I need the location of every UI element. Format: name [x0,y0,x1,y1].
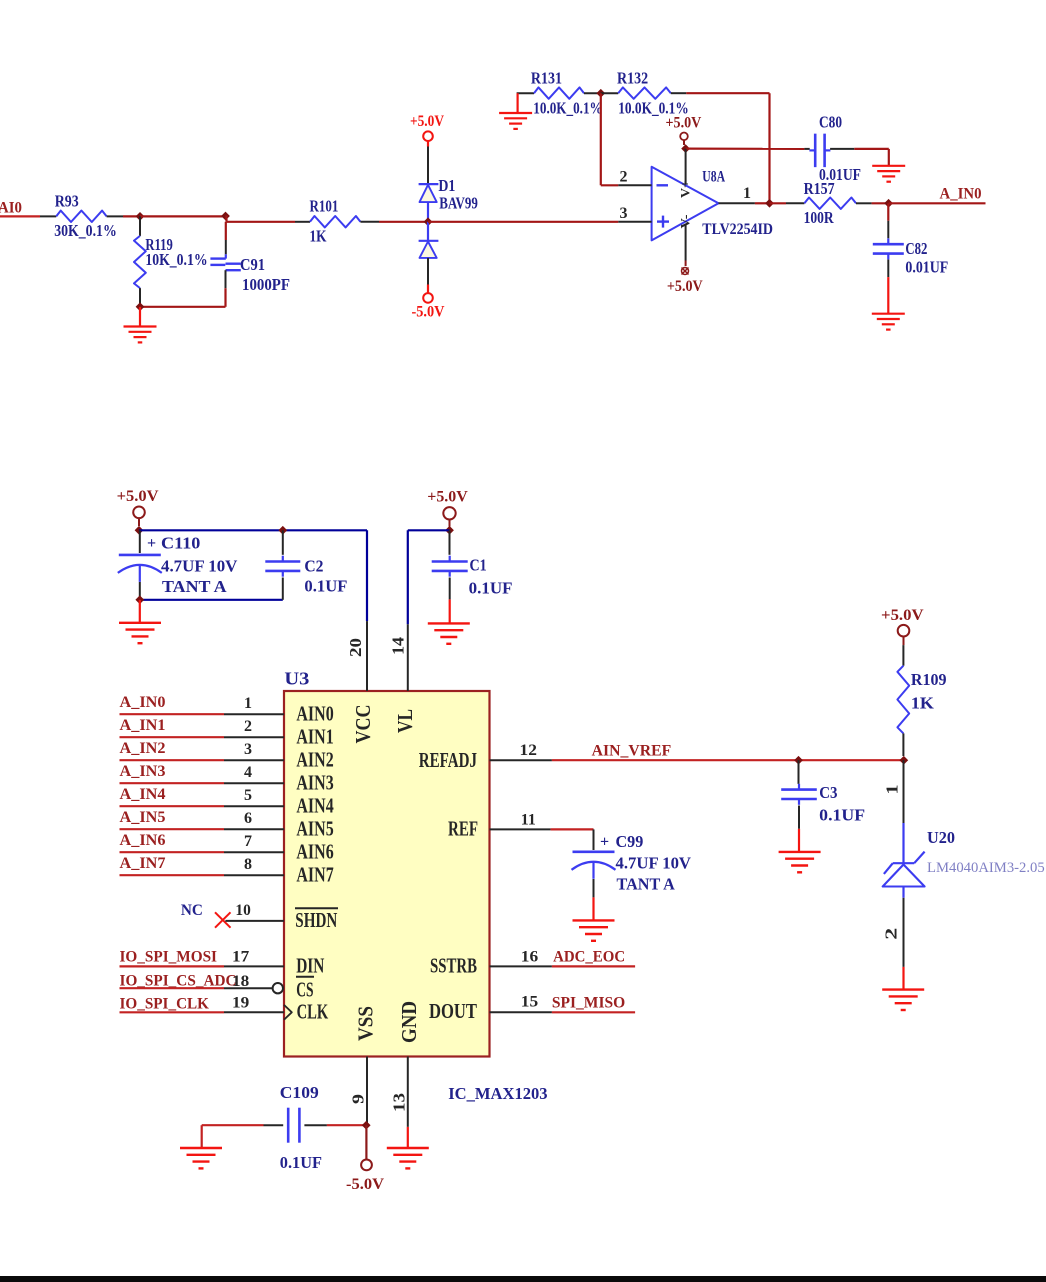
svg-text:+: + [600,834,609,851]
svg-text:30K_0.1%: 30K_0.1% [54,221,117,240]
resistor R132 [601,69,689,118]
pin 19 lead CLK with clock wedge [224,994,329,1023]
node junction D1 [424,217,433,226]
svg-text:1: 1 [244,695,252,712]
pin 18 lead CS with bubble [224,973,314,1001]
wire C109 to ground [202,1125,264,1148]
wire C1 to ground [449,599,451,623]
svg-text:U20: U20 [927,828,955,847]
op-amp U8A [652,149,773,261]
zener reference U20 [883,823,1045,898]
svg-text:2: 2 [244,718,252,735]
wire output node to R157 [770,202,787,204]
node junction VSS/-5V [362,1121,371,1130]
svg-text:VL: VL [393,709,417,733]
svg-text:17: 17 [232,948,249,965]
svg-text:+5.0V: +5.0V [667,278,703,295]
capacitor C109 [264,1083,327,1172]
net label A_IN2 [120,740,166,757]
node junction C2 top [278,526,287,535]
svg-text:LM4040AIM3-2.05: LM4040AIM3-2.05 [927,860,1045,876]
pin 3 lead op-amp [618,205,651,222]
svg-text:-5.0V: -5.0V [346,1176,384,1193]
svg-text:11: 11 [521,811,536,828]
pin 11 lead REF [448,811,551,840]
svg-text:A_IN7: A_IN7 [120,855,166,872]
svg-text:0.01UF: 0.01UF [905,257,948,276]
capacitor C3 [781,760,865,829]
pin 6 lead AIN5 [224,810,334,840]
wire +5V to VL bend [408,530,450,624]
svg-text:AIN0: AIN0 [296,702,333,726]
node junction C91 top [221,212,230,221]
diode D1 top half [419,147,478,222]
wire net IO_SPI_CS_ADC [120,987,225,989]
svg-text:4: 4 [244,764,252,781]
wire feedback R132 to output node [686,93,769,203]
svg-text:4.7UF 10V: 4.7UF 10V [161,557,238,576]
power +5.0V at op-amp V- [667,261,703,296]
wire D1 to op-amp pin 3 [428,221,618,223]
node junction C110 bottom [135,595,144,604]
pin 8 lead AIN7 [224,856,334,886]
wire net A_IN7 [120,874,225,876]
wire C99 to ground [592,897,594,920]
svg-text:C91: C91 [240,255,265,274]
pin 4 lead AIN3 [224,764,334,794]
svg-text:U3: U3 [284,669,309,689]
svg-text:AIN6: AIN6 [296,840,333,864]
svg-text:+5.0V: +5.0V [117,488,159,505]
power +5.0V at op-amp V+ [666,114,702,145]
pin 3 lead AIN2 [224,741,334,771]
net label A_IN0 [120,694,166,711]
svg-text:A_IN5: A_IN5 [120,809,166,826]
ground GND pin 13 [387,1148,429,1168]
svg-text:0.1UF: 0.1UF [280,1153,322,1172]
svg-text:DOUT: DOUT [429,999,477,1023]
wire C91 node to R101 [227,221,296,223]
pin 9 lead VSS [349,1006,378,1125]
pin 12 lead REFADJ [419,742,552,772]
svg-text:C109: C109 [280,1083,319,1102]
capacitor C99 tantalum [572,829,692,897]
wire C3 to ground [798,829,800,852]
svg-text:A_IN1: A_IN1 [120,717,166,734]
svg-text:4.7UF 10V: 4.7UF 10V [616,854,692,873]
net label SPI_MISO [552,994,625,1011]
svg-text:2: 2 [882,928,901,940]
svg-text:6: 6 [244,810,252,827]
svg-text:A_IN3: A_IN3 [120,763,166,780]
pin 1 output lead op-amp [719,185,755,203]
ground C110 [119,623,161,643]
wire REF to C99 [551,828,594,830]
svg-text:SPI_MISO: SPI_MISO [552,994,625,1011]
svg-text:R131: R131 [531,69,562,88]
ground C82 [872,314,905,330]
wire net A_IN4 [120,805,225,807]
svg-text:DIN: DIN [296,954,324,978]
wire R93 to node [123,215,140,217]
power -5.0V at D1 [412,285,445,321]
net label ADC_EOC [553,949,625,966]
ground C80 [872,166,905,182]
svg-text:CLK: CLK [297,1000,329,1024]
node junction +5V C1 [445,526,454,535]
node junction R131/R132 [596,89,605,98]
pin 10 lead SHDN [225,902,338,932]
svg-text:0.1UF: 0.1UF [304,577,347,596]
node junction C3 [794,756,803,765]
svg-text:+: + [147,535,156,552]
wire net A_IN2 [120,759,225,761]
net label A_IN5 [120,809,166,826]
svg-text:1: 1 [883,785,902,795]
wire stub to ground R131 [516,93,518,113]
wire V+ node to C80 [686,148,805,150]
net label IO_SPI_MOSI [120,948,218,965]
capacitor C80 [804,112,861,184]
svg-text:-5.0V: -5.0V [412,303,445,320]
ground C1 [428,623,470,643]
svg-text:+5.0V: +5.0V [410,113,444,130]
svg-text:A_IN0: A_IN0 [120,694,166,711]
resistor R119 [134,216,208,306]
wire node to C91 node [140,215,226,217]
wire net IO_SPI_CLK [120,1011,225,1013]
net label A_IN1 [120,717,166,734]
node junction R119 bottom [136,302,145,311]
net label IO_SPI_CS_ADC [120,973,237,990]
node junction A_IN0 [884,199,893,208]
svg-text:D1: D1 [438,176,455,195]
diode D1 bottom half [419,222,439,285]
svg-text:7: 7 [244,833,252,850]
wire net A_IN3 [120,782,225,784]
net label A_IN7 [120,855,166,872]
node junction op-amp output [765,199,774,208]
svg-text:NC: NC [181,902,203,919]
svg-text:C99: C99 [616,832,644,851]
wire bottom R119/C91 [140,306,226,308]
svg-text:C80: C80 [819,112,842,131]
wire stub to ground R119 [139,307,141,327]
pin 2 lead op-amp [618,168,651,185]
svg-text:A_IN6: A_IN6 [120,832,166,849]
power -5.0V at VSS [346,1125,384,1193]
resistor R101 [295,197,379,246]
net label IO_SPI_CLK [120,996,210,1013]
net label A_IN0 [940,185,982,202]
capacitor C82 [873,203,949,277]
svg-text:8: 8 [244,856,252,873]
svg-text:10.0K_0.1%: 10.0K_0.1% [533,98,602,117]
pin 2 lead AIN1 [224,718,334,748]
svg-text:1K: 1K [310,227,328,246]
wire C110 bottom to C2 bottom [140,599,283,601]
svg-text:REFADJ: REFADJ [419,748,477,772]
svg-text:100R: 100R [804,208,835,227]
wire stub to ground C110 [139,600,141,623]
svg-text:16: 16 [521,948,538,965]
wire R101 to D1 node [379,221,428,223]
resistor R93 [40,192,123,241]
svg-text:R109: R109 [911,670,947,689]
net label NC [181,902,203,919]
wire jog down at C91 node [225,216,227,222]
svg-text:1K: 1K [911,693,935,712]
node junction R109/U20 [899,756,908,765]
pin 2 lead U20 [882,898,904,967]
svg-text:ADC_EOC: ADC_EOC [553,949,625,966]
wire stub GND to ground [407,1127,409,1148]
svg-text:2: 2 [620,168,628,185]
svg-text:A_IN2: A_IN2 [120,740,166,757]
net label AIN_VREF [592,742,672,759]
net label A_IN3 [120,763,166,780]
ground C3 [779,852,821,872]
svg-text:TLV2254ID: TLV2254ID [702,221,773,238]
svg-text:14: 14 [389,636,408,655]
svg-text:+5.0V: +5.0V [881,607,924,624]
svg-text:12: 12 [520,742,537,759]
svg-text:10K_0.1%: 10K_0.1% [145,250,207,269]
wire C80 to ground [854,149,889,166]
resistor R109 [897,645,946,756]
svg-text:C82: C82 [905,239,927,258]
ground C109 [180,1148,222,1168]
ground U20 [882,990,924,1010]
capacitor C1 [432,530,513,599]
svg-text:AI0: AI0 [0,200,22,217]
svg-text:U8A: U8A [702,168,725,185]
svg-text:0.1UF: 0.1UF [819,805,865,824]
svg-text:C110: C110 [161,534,200,553]
no-connect X mark [215,912,231,927]
svg-text:SSTRB: SSTRB [430,954,477,978]
svg-text:5: 5 [244,787,252,804]
wire net A_IN0 [120,713,225,715]
net label A_IN6 [120,832,166,849]
pin 17 lead DIN [224,948,324,977]
label IC_MAX1203 [448,1084,547,1103]
resistor R131 [517,69,603,118]
svg-text:AIN5: AIN5 [296,817,333,841]
wire net A_IN5 [120,828,225,830]
svg-text:IO_SPI_MOSI: IO_SPI_MOSI [120,948,218,965]
svg-text:R101: R101 [310,197,339,216]
wire C109 to VSS node [327,1124,366,1126]
svg-text:C2: C2 [304,557,323,576]
pin 7 lead AIN6 [224,833,334,863]
svg-text:C1: C1 [470,556,487,575]
svg-text:R157: R157 [804,179,835,198]
svg-text:AIN_VREF: AIN_VREF [592,742,672,759]
svg-text:13: 13 [390,1093,409,1112]
svg-text:SHDN: SHDN [295,908,337,932]
pin 1 lead U20 [883,760,904,823]
pin 16 lead SSTRB [430,948,552,977]
svg-text:A_IN0: A_IN0 [940,185,982,202]
svg-text:R132: R132 [617,69,648,88]
power +5.0V at C1 [427,488,468,526]
svg-text:REF: REF [448,817,478,841]
wire net A_IN6 [120,851,225,853]
wire net A_IN1 [120,736,225,738]
svg-text:AIN1: AIN1 [296,725,333,749]
svg-text:VSS: VSS [353,1006,377,1041]
pin 5 lead AIN4 [224,787,334,817]
svg-text:V+: V+ [678,180,693,198]
svg-text:C3: C3 [819,783,837,802]
wire output to node [755,202,770,204]
wire R157 to output node A_IN0 [872,202,889,204]
svg-text:3: 3 [244,741,252,758]
ground R119 [124,327,157,343]
IC U3 body [284,669,490,1057]
svg-text:+5.0V: +5.0V [666,114,702,131]
wire AI0 input [0,215,40,217]
svg-text:CS: CS [296,977,313,1001]
svg-text:AIN3: AIN3 [296,771,333,795]
power +5.0V at D1 [410,113,444,147]
pin 20 lead VCC [346,621,375,743]
svg-text:A_IN4: A_IN4 [120,786,166,803]
svg-text:IC_MAX1203: IC_MAX1203 [448,1084,547,1103]
node junction op-amp V+ [681,144,690,153]
svg-text:20: 20 [346,638,365,657]
wire net AIN_VREF [552,759,904,761]
capacitor C2 [265,530,347,600]
svg-text:VCC: VCC [351,705,375,744]
capacitor C110 tantalum [118,530,238,600]
wire U20 to ground [902,967,904,990]
svg-text:AIN7: AIN7 [296,863,333,887]
wire C82 to ground [887,277,889,314]
svg-text:IO_SPI_CLK: IO_SPI_CLK [120,996,210,1013]
svg-text:18: 18 [232,973,249,990]
bottom black bar [0,1276,1046,1282]
svg-text:19: 19 [232,994,249,1011]
resistor R157 [786,179,872,227]
wire net SPI_MISO [552,1011,635,1013]
pin 15 lead DOUT [429,993,552,1023]
svg-text:BAV99: BAV99 [439,194,478,213]
svg-text:TANT A: TANT A [162,577,227,596]
svg-text:AIN2: AIN2 [296,748,333,772]
wire A_IN0 out [889,202,986,204]
wire net ADC_EOC [552,965,635,967]
pin 13 lead GND [390,1001,422,1127]
capacitor C91 [210,222,290,307]
svg-text:1: 1 [743,185,751,202]
wire feedback node to op-amp pin 2 [601,93,619,185]
svg-text:0.1UF: 0.1UF [469,579,513,598]
wire +5V bus to VCC bend [139,530,367,621]
svg-text:V-: V- [678,215,693,229]
node junction R93/R119 [136,212,145,221]
ground R131 [499,113,532,129]
net label A_IN4 [120,786,166,803]
svg-text:AIN4: AIN4 [296,794,334,818]
power +5.0V at R109 [881,607,924,645]
svg-text:3: 3 [620,205,628,222]
net label AI0 [0,200,22,217]
ground C99 [573,920,615,940]
node junction +5V C110 [135,526,144,535]
svg-text:R93: R93 [55,192,79,211]
svg-text:9: 9 [349,1094,368,1104]
wire net IO_SPI_MOSI [120,965,225,967]
svg-text:1000PF: 1000PF [242,275,290,294]
pin 1 lead AIN0 [224,695,334,725]
svg-text:GND: GND [397,1001,421,1043]
pin 14 lead VL [389,624,417,733]
svg-text:TANT A: TANT A [617,875,676,894]
svg-text:15: 15 [521,993,538,1010]
svg-text:10: 10 [235,902,250,919]
power +5.0V at C110 [117,488,159,526]
svg-text:+5.0V: +5.0V [427,488,468,505]
